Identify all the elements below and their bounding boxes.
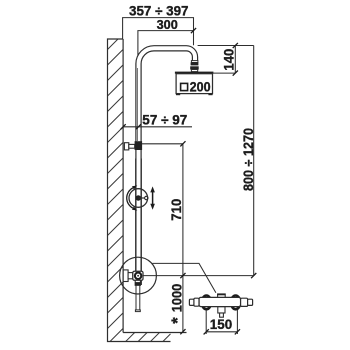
shower head body <box>176 74 212 94</box>
svg-text:200: 200 <box>190 79 211 94</box>
dim 140 line <box>234 46 236 74</box>
mixer left flange ring <box>202 296 211 310</box>
valve lower stem <box>135 280 140 285</box>
svg-text:1000: 1000 <box>169 284 184 313</box>
svg-text:57 ÷ 97: 57 ÷ 97 <box>142 113 187 128</box>
valve knob <box>128 273 133 279</box>
valve ring <box>135 273 141 279</box>
dim 150 line <box>206 331 237 333</box>
wall bracket clamp block <box>135 141 143 150</box>
svg-text:140: 140 <box>222 49 237 71</box>
floor surface line <box>123 332 186 334</box>
dim 57-97 line <box>123 126 192 128</box>
svg-text:150: 150 <box>210 317 232 332</box>
mixer body <box>199 297 241 306</box>
riser pipe inner line <box>141 51 192 159</box>
svg-text:800 ÷ 1270: 800 ÷ 1270 <box>241 128 256 191</box>
shower head top plate <box>175 72 214 74</box>
hand shower rod below valve <box>135 286 137 311</box>
dim 150 extension lines <box>205 310 207 334</box>
shower head label square symbol <box>181 83 188 90</box>
leader line from detail circle to mixer <box>152 263 216 292</box>
slider up-down arrow <box>152 191 154 206</box>
mixer right knob <box>241 298 248 306</box>
extension line top right <box>198 45 254 47</box>
slider center hub <box>136 195 141 200</box>
svg-text:*: * <box>169 317 187 324</box>
wall surface line <box>122 39 124 333</box>
wall hatching <box>108 39 124 342</box>
shower arm ball joint <box>190 61 199 72</box>
valve body <box>133 271 143 280</box>
wall outline <box>108 39 171 342</box>
riser inner highlight line (upper tube) <box>137 68 139 141</box>
valve wall flange <box>123 270 128 282</box>
dim 800-1270 line <box>253 46 255 276</box>
wall bracket plate <box>124 143 128 150</box>
dim 710 + 1000 line <box>182 144 184 332</box>
extension line bracket level <box>142 143 183 145</box>
detail circle <box>120 257 157 294</box>
slider rotation arrow arc <box>127 188 133 208</box>
shower head feet <box>176 94 180 96</box>
extension line mid (valve level) <box>143 275 254 277</box>
dim 300 line <box>138 31 194 56</box>
floor hatching <box>126 333 171 342</box>
mixer left knob <box>194 298 199 306</box>
dim 357-397 line <box>123 18 194 46</box>
slider rotation arrowheads <box>132 186 137 190</box>
wall bracket arm <box>129 144 135 148</box>
extension line head right <box>213 72 236 74</box>
riser pipe outer line <box>136 46 198 159</box>
slider lever <box>138 197 145 199</box>
mixer right flange ring <box>231 296 240 310</box>
slider knob circle <box>129 189 148 208</box>
svg-text:710: 710 <box>169 199 184 221</box>
mixer bottom outlet stem <box>218 307 225 313</box>
mixer top connector <box>218 294 226 297</box>
svg-text:300: 300 <box>157 17 178 32</box>
